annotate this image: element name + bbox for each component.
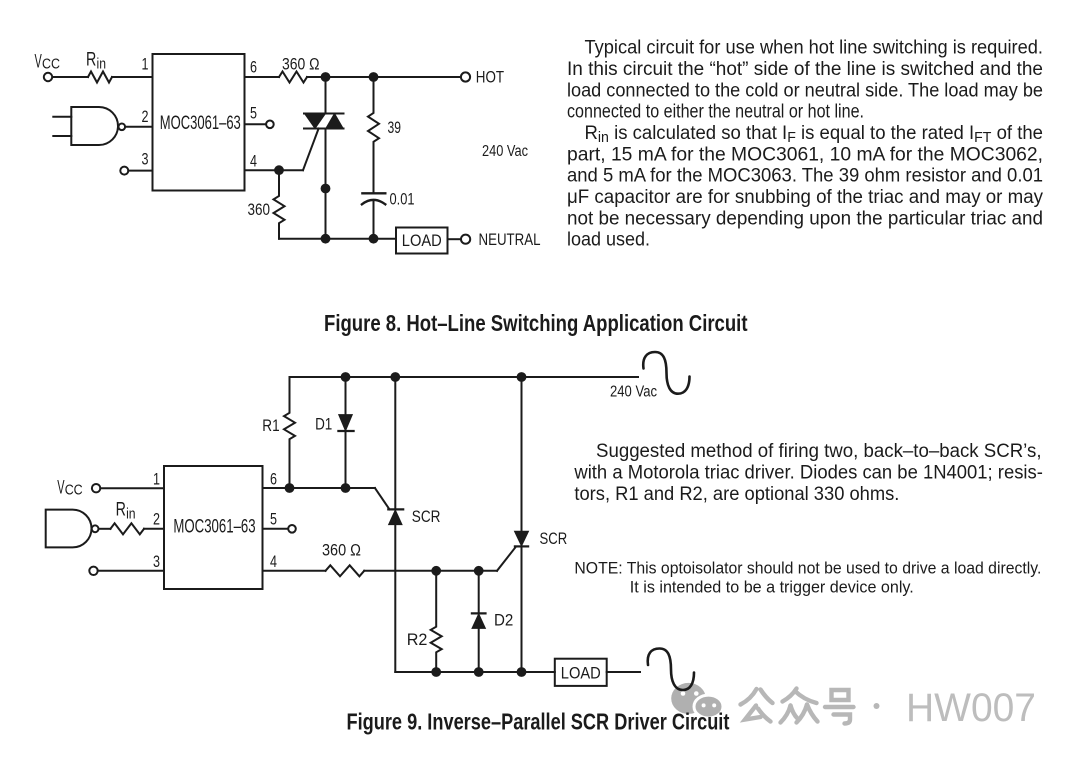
node junction snubber top [369,72,379,82]
watermark HW007 text [906,686,1036,730]
paragraph fig8 line1 [585,38,1044,59]
svg-text:D2: D2 [494,611,513,630]
node 240 Vac label fig9 [610,384,657,401]
svg-text:5: 5 [250,105,257,123]
svg-text:240 Vac: 240 Vac [610,384,657,401]
watermark wechat icon big bubble [671,683,706,714]
svg-text:1: 1 [142,56,149,74]
svg-text:LOAD: LOAD [402,231,442,250]
svg-text:R2: R2 [407,630,428,649]
svg-text:4: 4 [250,153,257,171]
svg-text:R1: R1 [262,416,279,435]
svg-text:It is intended to be a trigger: It is intended to be a trigger device on… [630,578,914,597]
component LOAD box fig9 [555,659,607,686]
wire pin 4 [245,169,304,171]
svg-text:Suggested method of firing two: Suggested method of firing two, back–to–… [596,441,1042,462]
wire pin4 fig9 [263,570,326,572]
svg-text:load used.: load used. [567,230,650,251]
wire cap to bottom [373,202,375,239]
caption figure 8 [324,310,748,336]
wire pin3 fig9 [98,570,164,572]
node junction top SCR2 [517,372,527,382]
paragraph fig8 line9 [567,208,1043,229]
svg-text:D1: D1 [315,415,332,434]
watermark glyph zhong [781,689,818,723]
paragraph fig8 line6 [567,144,1043,165]
svg-text:Rin is calculated so that IF i: Rin is calculated so that IF is equal to… [585,123,1044,146]
NAND gate U3 body [46,510,92,548]
triac Q1 [304,114,344,129]
svg-text:240 Vac: 240 Vac [482,143,528,160]
paragraph fig8 line7 [567,166,1043,187]
resistor Rin [88,72,112,83]
svg-text:V: V [35,52,42,73]
terminal HOT [461,72,470,81]
svg-text:in: in [97,57,107,73]
svg-text:0.01: 0.01 [390,190,415,209]
thyristor SCR2 label [540,529,568,548]
NAND gate U2 input stubs [53,117,71,136]
svg-text:CC: CC [42,57,60,73]
wire VCC to Rin [53,76,89,78]
pin number 3 [142,151,149,169]
capacitor 0.01 label [390,190,415,209]
svg-text:3: 3 [153,553,160,571]
svg-text:2: 2 [153,511,160,529]
wire SCR2 gate diagonal [497,547,516,571]
wire Rin to pin 1 [112,76,153,78]
svg-text:In this circuit the “hot” side: In this circuit the “hot” side of the li… [567,59,1043,80]
resistor 360 ohm label [282,55,320,74]
terminal pin 5 [266,121,274,129]
node dot on triac line [321,184,331,194]
NAND gate U3 bubble [92,525,99,532]
wire pin5 fig9 [263,528,289,530]
svg-text:Typical circuit for use when h: Typical circuit for use when hot line sw… [585,38,1044,59]
caption figure 9 [347,708,730,734]
svg-text:360 Ω: 360 Ω [322,541,361,560]
svg-text:1: 1 [153,471,160,489]
wire 360 to SCR2 gate [364,570,497,572]
resistor Rin label [86,50,106,73]
svg-text:3: 3 [142,151,149,169]
resistor 39 label [388,118,402,137]
wire triac anode [325,77,327,114]
wire triac cathode down [325,129,327,239]
svg-text:with a Motorola triac driver.: with a Motorola triac driver. Diodes can… [573,463,1042,484]
terminal VCC [44,73,52,81]
resistor Rin label fig9 [116,500,136,523]
pin number 2 [142,108,149,126]
pin number 6 [250,59,257,77]
svg-text:not be necessary depending upo: not be necessary depending upon the part… [567,208,1043,229]
wire LOAD to source fig9 [607,671,640,673]
paragraph fig8 line2 [567,59,1043,80]
node junction bottom R2 [431,667,441,677]
svg-text:and 5 mA for the MOC3063. The: and 5 mA for the MOC3063. The 39 ohm res… [567,166,1043,187]
node junction pin6 R1 [285,483,295,493]
node 240 Vac label fig8 [482,143,528,160]
terminal VCC fig9 [92,484,100,492]
svg-text:6: 6 [270,471,277,489]
note line1 [574,559,1041,578]
svg-text:39: 39 [388,118,402,137]
svg-text:LOAD: LOAD [561,664,601,683]
svg-text:Figure 8. Hot–Line Switching A: Figure 8. Hot–Line Switching Application… [324,310,748,336]
terminal pin 3 [120,167,128,175]
wire bottom rail fig9 [395,671,555,673]
svg-text:6: 6 [250,59,257,77]
node junction bottom snubber [369,234,379,244]
svg-text:connected to either the neutra: connected to either the neutral or hot l… [567,102,864,123]
svg-text:5: 5 [270,511,277,529]
wire NAND to Rin fig9 [99,528,111,530]
svg-text:SCR: SCR [540,529,568,548]
wire Rin to pin2 fig9 [144,528,164,530]
svg-text:tors, R1 and R2, are optional: tors, R1 and R2, are optional 330 ohms. [574,484,899,505]
resistor 360 ohm fig9 [326,565,365,576]
svg-text:2: 2 [142,108,149,126]
diode D1 label [315,415,332,434]
wire pin6 fig9 [263,487,375,489]
node junction bottom SCR2 [517,667,527,677]
pin number 3 fig9 [153,553,160,571]
paragraph fig8 line8 [567,187,1043,208]
watermark middle dot [874,703,880,709]
resistor R2 label [407,630,428,649]
node junction top D1 [341,372,351,382]
paragraph fig9 line3 [574,484,899,505]
node VCC label [35,52,61,73]
paragraph fig9 line2 [573,463,1042,484]
wire triac gate diagonal [303,129,319,171]
resistor 39 [368,77,379,193]
svg-text:in: in [126,507,136,523]
paragraph fig8 line10 [567,230,650,251]
svg-text:MOC3061–63: MOC3061–63 [160,113,241,134]
node VCC label fig9 [57,478,82,499]
paragraph fig9 line1 [596,441,1042,462]
node junction top SCR1 [390,372,400,382]
pin number 5 fig9 [270,511,277,529]
node junction bottom triac [321,234,331,244]
wire bottom rail fig8 [279,238,396,240]
watermark glyph hao [825,690,854,724]
watermark glyph gong [741,689,773,722]
op-amp U4 MOC3061-63 box fig9 [164,466,263,589]
svg-text:CC: CC [65,483,83,499]
op-amp U1 MOC3061-63 box [153,54,245,191]
wire SCR1 gate diagonal [375,488,390,509]
node junction pin6 D1 [341,483,351,493]
svg-text:part, 15 mA for the MOC3061, 1: part, 15 mA for the MOC3061, 10 mA for t… [567,144,1043,165]
svg-text:load connected to the cold or: load connected to the cold or neutral si… [567,80,1043,101]
pin number 1 [142,56,149,74]
diode D2 [472,571,486,672]
pin number 5 [250,105,257,123]
svg-text:Figure 9. Inverse–Parallel SCR: Figure 9. Inverse–Parallel SCR Driver Ci… [347,708,730,734]
wire top rail fig9 [290,376,639,378]
svg-text:4: 4 [270,553,277,571]
node junction R2 top [431,566,441,576]
resistor R1 [284,377,295,488]
resistor 360 ohm top [279,72,307,83]
component LOAD box fig8 [396,228,448,254]
svg-text:360 Ω: 360 Ω [282,55,320,74]
resistor Rin fig9 [110,523,144,534]
source sine bottom [648,649,694,691]
pin number 2 fig9 [153,511,160,529]
svg-text:SCR: SCR [412,507,441,526]
svg-text:NEUTRAL: NEUTRAL [479,230,541,249]
svg-text:HW007: HW007 [906,686,1036,730]
diode D2 label [494,611,513,630]
wire LOAD to NEUTRAL [448,238,462,240]
thyristor SCR1 label [412,507,441,526]
pin number 1 fig9 [153,471,160,489]
thyristor SCR2 [515,377,529,672]
terminal NEUTRAL [461,235,470,244]
diode D1 [338,377,353,488]
resistor 360 ohm label fig9 [322,541,361,560]
terminal pin5 fig9 [288,525,296,533]
node junction pin4 [274,165,284,175]
wire NAND to pin 2 [125,126,152,128]
svg-text:HOT: HOT [476,67,504,86]
svg-text:MOC3061–63: MOC3061–63 [173,517,255,538]
svg-text:NOTE: This optoisolator should: NOTE: This optoisolator should not be us… [574,559,1041,578]
wire 360 to HOT [307,76,461,78]
resistor 360 gate vertical [274,170,285,239]
resistor R1 label [262,416,279,435]
resistor 360 gate label [248,200,271,219]
NAND gate U2 body [71,107,118,145]
pin number 6 fig9 [270,471,277,489]
node junction D2 top [474,566,484,576]
svg-text:μF capacitor are for snubbing: μF capacitor are for snubbing of the tri… [567,187,1043,208]
svg-text:360: 360 [248,200,271,219]
watermark wechat icon small bubble [694,695,723,718]
wire VCC to pin1 fig9 [100,487,164,489]
resistor R2 [431,571,442,672]
paragraph fig8 line4 [567,102,864,123]
thyristor SCR1 [388,377,403,672]
node NEUTRAL label [479,230,541,249]
paragraph fig8 line3 [567,80,1043,101]
pin number 4 [250,153,257,171]
capacitor C1 0.01 [362,193,385,204]
source sine top 240 Vac [643,352,689,394]
wire pin 3 [128,170,152,172]
node junction bottom D2 [474,667,484,677]
NAND gate U2 output bubble [119,124,126,131]
pin number 4 fig9 [270,553,277,571]
paragraph fig8 line5 [585,123,1044,146]
node HOT label [476,67,504,86]
wire pin 6 to R 360 [245,76,280,78]
svg-text:R: R [86,50,96,71]
wire pin 5 [245,123,267,125]
svg-text:R: R [116,500,126,521]
terminal pin3 fig9 [89,567,97,575]
svg-text:V: V [57,478,64,499]
node junction triac top [321,72,331,82]
note line2 [630,578,914,597]
